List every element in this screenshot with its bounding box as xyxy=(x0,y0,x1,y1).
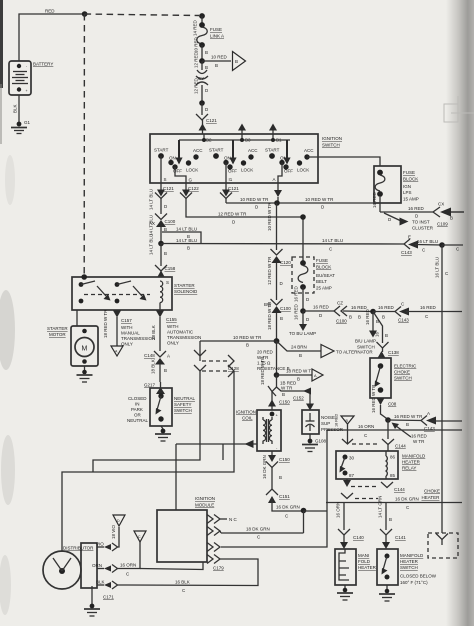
svg-text:CHOKE: CHOKE xyxy=(394,370,410,375)
connector C148 xyxy=(144,351,170,382)
svg-text:16 ORN: 16 ORN xyxy=(336,502,341,518)
wire coil negative to module xyxy=(176,440,257,510)
svg-text:C120: C120 xyxy=(280,260,291,265)
svg-text:B: B xyxy=(382,315,385,320)
svg-text:14 LT BLU: 14 LT BLU xyxy=(176,227,197,232)
svg-text:16 RED: 16 RED xyxy=(365,308,370,325)
svg-text:SWITCH: SWITCH xyxy=(400,565,418,570)
svg-text:C141: C141 xyxy=(395,535,406,540)
fuse block BU/SEAT BELT 25 AMP xyxy=(292,217,335,293)
svg-text:B: B xyxy=(235,59,238,64)
svg-text:+: + xyxy=(26,89,28,93)
svg-text:B: B xyxy=(358,315,361,320)
connector E C143 on 16 LT BLU xyxy=(401,235,442,256)
svg-text:PARK: PARK xyxy=(131,407,143,412)
connector C122 below G xyxy=(180,183,199,204)
wire battery top to junction, RED xyxy=(19,9,85,62)
connector triangle B xyxy=(233,52,246,71)
svg-text:PRESSOR: PRESSOR xyxy=(321,427,344,432)
svg-text:16 RED: 16 RED xyxy=(411,434,428,439)
svg-text:S: S xyxy=(166,280,169,285)
svg-text:W TR: W TR xyxy=(413,439,425,444)
wire battery to ground, BLK xyxy=(13,95,20,124)
svg-text:START: START xyxy=(209,148,224,153)
svg-text:B: B xyxy=(406,422,409,427)
svg-text:G108: G108 xyxy=(315,439,327,444)
ignition switch U1 xyxy=(150,134,342,183)
svg-text:B: B xyxy=(280,316,283,321)
svg-text:MANUAL: MANUAL xyxy=(121,331,140,336)
svg-text:MODULE: MODULE xyxy=(195,503,214,508)
neutral safety switch xyxy=(127,388,196,426)
switch section 3 xyxy=(265,140,314,174)
svg-text:HEATER: HEATER xyxy=(400,559,419,564)
svg-text:W TR: W TR xyxy=(281,386,293,391)
ground below neutral safety switch xyxy=(155,426,171,441)
svg-text:18 BLK: 18 BLK xyxy=(151,325,156,340)
fuse link A, 14 RED xyxy=(193,13,225,48)
svg-text:16 DK GRN: 16 DK GRN xyxy=(262,455,267,479)
svg-text:18 VIO: 18 VIO xyxy=(111,524,116,539)
svg-text:C: C xyxy=(138,535,141,539)
svg-text:24 BRN: 24 BRN xyxy=(291,345,307,350)
node resistance wire xyxy=(274,338,280,344)
svg-text:CY: CY xyxy=(198,76,204,81)
svg-text:C152: C152 xyxy=(293,396,304,401)
svg-text:LOCK: LOCK xyxy=(186,168,198,173)
wire dashed to 16 DK GRN xyxy=(341,493,378,499)
wire 18 RED W TR to triangle A xyxy=(277,369,324,382)
svg-text:C144: C144 xyxy=(395,444,406,449)
ground below heater switch xyxy=(379,585,395,601)
svg-text:NEUTRAL: NEUTRAL xyxy=(174,396,196,401)
svg-text:85: 85 xyxy=(390,473,396,478)
svg-text:C121: C121 xyxy=(163,186,174,191)
node junction top xyxy=(82,11,88,17)
svg-text:TO BU LAMP: TO BU LAMP xyxy=(289,331,316,336)
wire 14 LT BLU long line to C143 xyxy=(161,238,404,252)
svg-text:ONLY: ONLY xyxy=(167,341,179,346)
wire 10 RED W TR to C128 xyxy=(200,335,277,348)
svg-text:BATTERY: BATTERY xyxy=(33,62,53,67)
wire dashed top to fuse link xyxy=(85,14,199,16)
svg-text:IGN: IGN xyxy=(403,184,411,189)
wire 16 RED W TR to A C143 xyxy=(388,414,423,427)
svg-text:ELECTRIC: ELECTRIC xyxy=(394,364,417,369)
svg-text:AUTOMATIC: AUTOMATIC xyxy=(167,330,194,335)
wire dashed down to starter solenoid xyxy=(83,14,85,276)
svg-text:ON: ON xyxy=(169,156,176,161)
svg-text:25 AMP: 25 AMP xyxy=(316,286,332,291)
ground below distributor xyxy=(84,586,100,616)
svg-text:IGNITION: IGNITION xyxy=(236,410,256,415)
svg-text:OR: OR xyxy=(134,413,142,418)
svg-text:C122: C122 xyxy=(188,186,199,191)
svg-text:16 RED: 16 RED xyxy=(294,303,299,320)
wire 16 ORN to triangle C and module xyxy=(118,531,204,577)
switch section 2 xyxy=(209,140,258,174)
svg-text:FUSE: FUSE xyxy=(210,27,222,32)
svg-text:20 RED: 20 RED xyxy=(257,350,274,355)
svg-text:COIL: COIL xyxy=(242,416,253,421)
svg-text:B: B xyxy=(164,368,167,373)
svg-text:14 LT BLU: 14 LT BLU xyxy=(176,238,197,243)
svg-text:16: 16 xyxy=(375,331,380,337)
connector C140 xyxy=(338,529,364,549)
svg-text:WITH: WITH xyxy=(121,325,133,330)
wire node to module pin3 vertical xyxy=(304,510,328,512)
svg-text:BLK: BLK xyxy=(96,580,105,585)
wire coil negative down C150 xyxy=(262,451,290,489)
connector C151 xyxy=(266,489,302,519)
svg-text:18 RED W TR: 18 RED W TR xyxy=(267,301,272,330)
connector A C143 xyxy=(421,411,462,431)
wire staircase to distributor xyxy=(62,371,234,552)
connector C155 automatic transmission branch xyxy=(151,310,201,351)
svg-text:G: G xyxy=(189,178,193,183)
wire staircase middle xyxy=(93,371,200,472)
svg-text:B: B xyxy=(349,315,352,320)
svg-text:START: START xyxy=(154,148,169,153)
svg-text:D: D xyxy=(117,519,120,523)
svg-text:SWITCH: SWITCH xyxy=(174,408,192,413)
svg-text:10 RED W TR: 10 RED W TR xyxy=(233,335,262,340)
svg-text:FUSE: FUSE xyxy=(403,170,415,175)
wire 16 ORN drop to module pin3 xyxy=(221,430,327,547)
connector CX xyxy=(433,202,464,227)
svg-text:BLK: BLK xyxy=(13,104,18,113)
svg-text:B: B xyxy=(282,392,285,397)
svg-text:16 RED: 16 RED xyxy=(372,191,377,208)
svg-text:B: B xyxy=(205,65,208,70)
svg-text:CLUSTER: CLUSTER xyxy=(412,226,434,231)
svg-text:RED: RED xyxy=(45,9,55,14)
svg-text:I1: I1 xyxy=(229,177,233,182)
connector C141 xyxy=(380,529,406,549)
svg-text:C100: C100 xyxy=(165,219,176,224)
module pins C179 xyxy=(207,515,238,571)
svg-text:WITH: WITH xyxy=(167,324,179,329)
svg-text:B: B xyxy=(279,475,282,480)
starter solenoid xyxy=(72,274,198,310)
svg-text:18 RED W TR: 18 RED W TR xyxy=(260,356,265,385)
svg-text:12 RED W TR: 12 RED W TR xyxy=(267,256,272,285)
wire 20 RED W TR resistance xyxy=(257,341,290,375)
svg-text:LOCK: LOCK xyxy=(297,168,309,173)
svg-text:16 BLK: 16 BLK xyxy=(175,580,190,585)
wire 16 RED to C143 right xyxy=(373,305,395,320)
svg-text:14 LT BLU: 14 LT BLU xyxy=(149,234,154,255)
connector G217 xyxy=(144,382,165,394)
wire 16 LT BLU off page right xyxy=(442,245,463,252)
svg-text:C151: C151 xyxy=(279,494,290,499)
svg-text:C140: C140 xyxy=(353,535,364,540)
svg-text:CLOSED: CLOSED xyxy=(128,396,147,401)
electric choke switch xyxy=(370,358,417,398)
battery xyxy=(9,61,53,95)
wire 14 LT BLU upper branch xyxy=(162,227,201,244)
svg-text:C128: C128 xyxy=(228,366,239,371)
svg-text:STARTER: STARTER xyxy=(47,326,68,331)
svg-text:ACC: ACC xyxy=(248,148,258,153)
svg-text:12 RED: 12 RED xyxy=(194,77,199,94)
connector C157 manual transmission branch xyxy=(103,309,155,356)
connector C121 below S xyxy=(155,183,174,204)
wire 16 DK GRN bottom bus xyxy=(326,489,462,511)
wire 16 ORN horizontal xyxy=(327,424,462,438)
label leader 16 RED W TR xyxy=(392,423,428,445)
svg-text:C100: C100 xyxy=(336,319,347,324)
svg-text:MANIFOLD: MANIFOLD xyxy=(402,454,426,459)
wire 18 VIO to triangle D xyxy=(111,515,125,547)
svg-text:A: A xyxy=(427,411,430,416)
svg-text:B: B xyxy=(164,251,167,256)
wire 12 RED W TR from C122 xyxy=(186,204,303,225)
svg-text:14 LT BLU: 14 LT BLU xyxy=(149,215,154,236)
svg-text:MANIFOLD: MANIFOLD xyxy=(400,553,424,558)
svg-text:16 DK GRN: 16 DK GRN xyxy=(395,497,419,502)
svg-text:TO INST: TO INST xyxy=(412,220,430,225)
connector CZ C100 xyxy=(334,301,373,324)
svg-text:16 RED: 16 RED xyxy=(408,206,425,211)
wire to coil + with up arrow xyxy=(268,398,276,410)
wire 10 RED W TR vertical drop xyxy=(267,202,277,250)
svg-text:HEATER: HEATER xyxy=(422,495,441,500)
svg-text:NEUTRAL: NEUTRAL xyxy=(127,418,149,423)
connector C100 BW xyxy=(264,299,291,313)
connector C108 below choke xyxy=(371,384,397,420)
wire 18 RED W TR down to split xyxy=(260,356,277,387)
svg-text:10 RED W TR: 10 RED W TR xyxy=(305,197,334,202)
connector C120 xyxy=(271,249,292,265)
svg-text:G1: G1 xyxy=(24,120,31,125)
svg-text:15 AMP: 15 AMP xyxy=(403,197,419,202)
svg-text:SWITCH: SWITCH xyxy=(322,143,340,148)
svg-text:C171: C171 xyxy=(103,595,114,600)
svg-text:B: B xyxy=(385,333,388,338)
svg-text:SUP: SUP xyxy=(321,421,330,426)
node 18 RED W TR branch xyxy=(274,372,280,378)
svg-text:16 RED: 16 RED xyxy=(313,305,330,310)
svg-text:C158: C158 xyxy=(165,266,176,271)
svg-text:18 RED W TR: 18 RED W TR xyxy=(103,309,108,338)
svg-text:NOISE: NOISE xyxy=(321,415,335,420)
svg-text:ACC: ACC xyxy=(193,148,203,153)
wire 12 RED W TR to C100 xyxy=(267,256,284,300)
wire 18 DK GRN from module xyxy=(221,527,304,540)
wire 14 LT GRN to C141 xyxy=(378,496,393,530)
svg-text:B: B xyxy=(246,343,249,348)
svg-text:C179: C179 xyxy=(213,566,224,571)
wire S exit xyxy=(161,156,167,183)
svg-text:C150: C150 xyxy=(279,400,290,405)
wire 16 RED to inst cluster xyxy=(384,213,434,231)
svg-text:16 RED: 16 RED xyxy=(420,305,437,310)
svg-text:C109: C109 xyxy=(437,222,448,227)
wire 10 RED branch right xyxy=(202,55,231,69)
svg-text:18 RED W TR: 18 RED W TR xyxy=(286,369,315,374)
wire 16 LT BLU down right edge xyxy=(435,245,450,533)
svg-text:16 RED: 16 RED xyxy=(294,285,299,302)
svg-text:CHOKE: CHOKE xyxy=(424,489,440,494)
ignition coil T1 xyxy=(236,410,281,452)
wire 14 LT BLU D xyxy=(149,189,169,214)
node 12 RED W TR xyxy=(300,214,306,220)
svg-text:A: A xyxy=(167,354,170,359)
svg-text:18 DK GRN: 18 DK GRN xyxy=(246,527,270,532)
ignition module xyxy=(157,496,215,562)
wire solenoid to starter motor xyxy=(76,310,78,326)
node 16 RED W TR xyxy=(385,417,391,423)
wire 12 RED with CY connector xyxy=(194,51,210,103)
svg-text:B: B xyxy=(187,246,190,251)
wire to BU lamp arrow xyxy=(289,303,316,336)
noise suppressor C9 xyxy=(302,410,344,434)
wire internal bus xyxy=(179,139,290,141)
svg-text:SWITCH: SWITCH xyxy=(394,376,412,381)
svg-text:LINK A: LINK A xyxy=(210,34,224,39)
wire 16 RED to CZ xyxy=(303,305,334,319)
connector C121 below I1 xyxy=(220,183,239,203)
ground below manifold heater xyxy=(337,585,353,600)
wire A exit down xyxy=(274,183,282,203)
svg-text:12 RED W TR: 12 RED W TR xyxy=(218,212,247,217)
svg-text:A: A xyxy=(273,177,276,182)
svg-text:16 ORN: 16 ORN xyxy=(120,563,136,568)
fuse block IGN LPS 15 AMP xyxy=(374,166,419,203)
svg-text:16 DK GRN: 16 DK GRN xyxy=(276,505,300,510)
svg-text:IGNITION: IGNITION xyxy=(322,136,342,141)
svg-text:12 RED: 12 RED xyxy=(194,51,199,68)
connector CY xyxy=(196,76,208,79)
svg-text:C144: C144 xyxy=(394,487,405,492)
node BU lamp branch xyxy=(300,308,306,314)
wire A exit xyxy=(273,163,283,184)
switch section 1 xyxy=(154,140,203,174)
svg-text:B: B xyxy=(215,63,218,68)
svg-text:C155: C155 xyxy=(166,317,177,322)
svg-text:SOLENOID: SOLENOID xyxy=(174,289,198,294)
svg-text:B: B xyxy=(450,216,453,221)
svg-text:10 RED: 10 RED xyxy=(194,36,199,53)
node 16 RED choke branch xyxy=(370,309,376,315)
svg-text:C121: C121 xyxy=(228,186,239,191)
connector C121 to switch B2 xyxy=(196,103,217,134)
wire 16 RED below fuse to node xyxy=(294,285,311,311)
wire B3 entry arrow xyxy=(238,124,246,135)
wire to noise suppressor xyxy=(290,388,314,411)
svg-text:SAFETY: SAFETY xyxy=(174,402,192,407)
wire I1 exit xyxy=(226,163,233,184)
svg-text:18 BLK: 18 BLK xyxy=(151,359,156,374)
svg-text:STARTER: STARTER xyxy=(174,283,195,288)
svg-text:S: S xyxy=(164,177,167,182)
ground G1 xyxy=(11,120,31,134)
svg-text:10 RED W TR: 10 RED W TR xyxy=(240,197,269,202)
svg-text:14 RED: 14 RED xyxy=(193,19,198,36)
wire 14 LT BLU down to C158 xyxy=(149,234,168,266)
svg-text:87: 87 xyxy=(349,473,355,478)
svg-text:IGNITION: IGNITION xyxy=(195,496,215,501)
svg-text:160° F (71°C): 160° F (71°C) xyxy=(400,580,428,585)
svg-text:HEATER: HEATER xyxy=(402,460,421,465)
wire 24 BRN to alternator xyxy=(277,341,374,358)
wire 10 RED W TR from C121 xyxy=(226,197,380,210)
node S branch xyxy=(158,241,164,247)
svg-text:BLOCK: BLOCK xyxy=(403,177,418,182)
svg-text:16 RED W TR: 16 RED W TR xyxy=(371,384,376,413)
svg-text:C157: C157 xyxy=(121,318,132,323)
connector C171 wires xyxy=(92,542,118,600)
manifold heater xyxy=(335,549,377,585)
wire G exit xyxy=(175,167,193,183)
svg-text:FUSE: FUSE xyxy=(316,258,328,263)
svg-text:16 RED: 16 RED xyxy=(378,305,395,310)
svg-text:BLOCK: BLOCK xyxy=(316,265,331,270)
node at 10 RED branch xyxy=(199,58,205,64)
svg-text:14 LT BLU: 14 LT BLU xyxy=(149,189,154,210)
svg-text:C138: C138 xyxy=(388,350,399,355)
ground G108 xyxy=(302,434,327,452)
svg-text:10 RED: 10 RED xyxy=(211,55,228,60)
connector C144 lower with dashed link xyxy=(343,479,405,492)
svg-text:M: M xyxy=(82,346,88,353)
svg-text:FOLD: FOLD xyxy=(358,559,371,564)
svg-text:IN: IN xyxy=(135,402,140,407)
svg-text:G217: G217 xyxy=(144,383,156,388)
connector C C143 xyxy=(395,302,462,323)
svg-text:CX: CX xyxy=(438,202,444,207)
connector C100 AX xyxy=(149,214,176,244)
wire C144 to relay coil xyxy=(387,420,389,451)
wire ACC3 to fuse block xyxy=(307,157,380,166)
svg-text:18 RED: 18 RED xyxy=(335,413,339,427)
svg-text:14 LT BLU: 14 LT BLU xyxy=(322,238,343,243)
svg-text:BELT: BELT xyxy=(316,279,327,284)
svg-text:B/U LAMP: B/U LAMP xyxy=(355,339,376,344)
svg-text:VIO: VIO xyxy=(96,542,104,547)
connector C128 dashed pair xyxy=(194,341,239,377)
svg-text:16 LT BLU: 16 LT BLU xyxy=(417,239,438,244)
svg-text:LOCK: LOCK xyxy=(241,168,253,173)
svg-text:B: B xyxy=(299,353,302,358)
svg-text:C148: C148 xyxy=(144,353,155,358)
manifold heater switch xyxy=(377,549,437,585)
svg-text:RELAY: RELAY xyxy=(402,466,416,471)
svg-text:C150: C150 xyxy=(279,457,290,462)
svg-text:86: 86 xyxy=(390,455,396,460)
svg-text:B: B xyxy=(164,227,167,232)
wire 18 RED W TR to resistance node xyxy=(267,301,283,341)
node 16 DK GRN xyxy=(301,508,307,514)
node 16 LT BLU at x442 xyxy=(439,242,445,248)
svg-text:B: B xyxy=(205,50,208,55)
svg-text:DISTRIBUTOR: DISTRIBUTOR xyxy=(63,546,94,551)
wire 16 ORN to C140 xyxy=(336,502,345,530)
connector split C150 C152 xyxy=(268,381,304,405)
svg-text:TRANSMISSION: TRANSMISSION xyxy=(167,335,201,340)
svg-text:16 ORN: 16 ORN xyxy=(358,424,374,429)
svg-text:START: START xyxy=(265,148,280,153)
svg-text:MANI: MANI xyxy=(358,553,369,558)
wire 16 RED below fuse xyxy=(372,191,433,218)
starter motor M1 xyxy=(47,326,98,366)
node above C121 xyxy=(199,100,205,106)
ground below starter motor xyxy=(77,366,93,382)
svg-text:CZ: CZ xyxy=(337,301,343,306)
svg-text:B: B xyxy=(297,377,300,382)
wire 16 BLK to module xyxy=(118,559,259,593)
